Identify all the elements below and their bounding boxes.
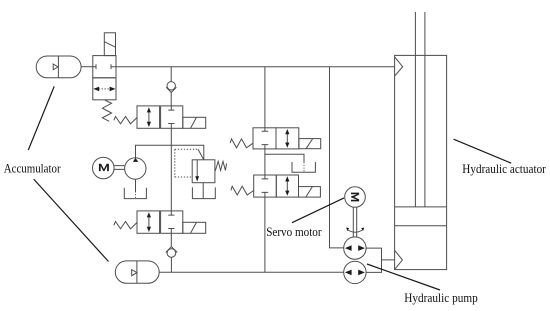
wire pump P1 pressure line to relief valve RV1	[136, 145, 204, 160]
wire check valve CV1 to valve V2	[170, 92, 172, 106]
pump P1	[125, 158, 146, 179]
motor M1	[93, 157, 115, 179]
relief valve RV1 pilot line (dashed)	[175, 149, 204, 177]
rotation arrows	[346, 227, 364, 232]
label line to servo motor	[292, 198, 344, 223]
wire valve V3 to check valve CV2	[170, 233, 172, 246]
valve V1 body	[93, 56, 116, 100]
wire feed to valve V4	[264, 67, 266, 128]
relief valve RV1 spring	[215, 161, 226, 171]
cylinder port arrow (top)	[395, 57, 403, 76]
wire check valve CV2 to bottom pipe	[170, 257, 172, 272]
check valve CV1	[166, 82, 176, 93]
valve V4 solenoid	[299, 139, 321, 149]
wire valve V4 drain to tank T3	[265, 149, 304, 163]
wire drop to check valve CV1	[170, 67, 172, 82]
valve V3 body	[137, 211, 183, 233]
pump P2 (upper element)	[344, 237, 366, 259]
svg-text:Servo motor: Servo motor	[266, 225, 321, 239]
svg-text:Hydraulic actuator: Hydraulic actuator	[462, 162, 546, 176]
valve V5 spring	[231, 186, 254, 195]
label line to hydraulic pump	[367, 264, 440, 290]
wire valve V2 to valve V3	[170, 128, 172, 211]
valve V2 solenoid	[183, 117, 206, 128]
check valve CV2	[166, 247, 178, 258]
svg-text:Hydraulic pump: Hydraulic pump	[404, 291, 477, 305]
wire to valve V5	[264, 154, 266, 175]
label line to hydraulic actuator	[454, 139, 512, 163]
valve V3 spring	[114, 222, 137, 229]
accumulator A2 (bottom)	[115, 261, 159, 283]
accumulator A1 (top)	[36, 56, 81, 78]
tank T3	[292, 162, 315, 172]
tank T1	[124, 188, 146, 199]
valve V1 spring	[102, 100, 111, 121]
cylinder port arrow (bottom)	[395, 250, 403, 269]
valve V2 spring	[114, 117, 137, 124]
tank T2	[192, 187, 215, 198]
valve V1 solenoid	[104, 33, 115, 56]
valve V3 solenoid	[183, 222, 206, 233]
valve V4 spring	[230, 139, 253, 148]
label line to accumulator A2	[34, 179, 109, 261]
shaft servo motor to pump P2	[353, 207, 356, 237]
label line to accumulator A1	[28, 86, 54, 150]
valve V4 body	[253, 128, 299, 149]
relief valve RV1	[192, 160, 215, 183]
valve V2 body	[137, 106, 183, 128]
svg-text:Accumulator: Accumulator	[4, 161, 61, 175]
pump P3 (lower element)	[344, 261, 366, 283]
wire accumulator A1 to valve V1	[81, 66, 93, 68]
wire feed to pump P2	[330, 67, 344, 248]
wire valve V5 to bottom pipe	[264, 197, 266, 272]
coupling M1 to pump P1	[114, 166, 124, 170]
wire main pressure line (top horizontal)	[116, 66, 395, 68]
valve V5 body	[254, 175, 299, 197]
valve V5 solenoid	[299, 187, 321, 198]
wire pump P2 outlet to cylinder	[366, 248, 395, 272]
wire pump P1 suction to tank T1	[135, 179, 137, 191]
servo motor M2	[345, 187, 366, 208]
hydraulic cylinder C1	[395, 12, 447, 270]
relief valve RV1 drain	[202, 183, 204, 199]
wire bottom pipe	[159, 271, 344, 273]
